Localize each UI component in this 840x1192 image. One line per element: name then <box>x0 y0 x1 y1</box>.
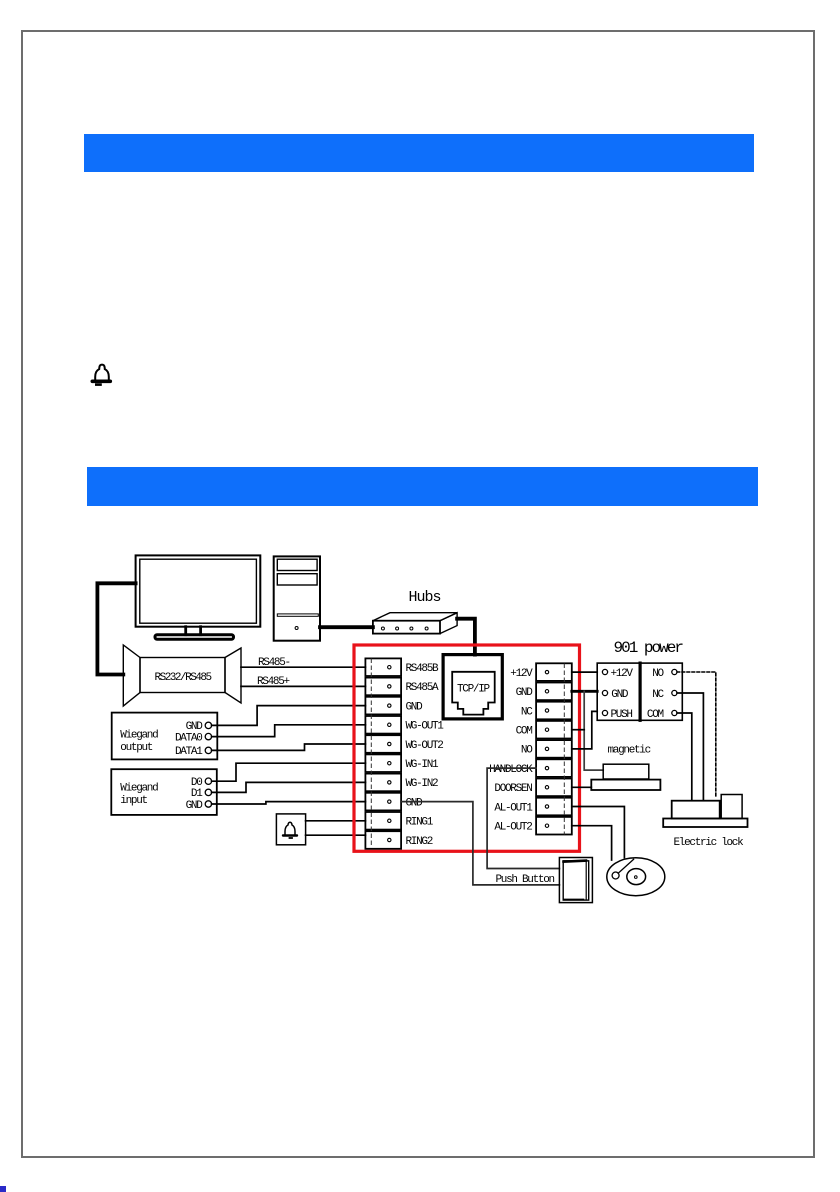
wire GND down to magnetic sensor <box>584 691 603 770</box>
doorbell button box <box>276 814 305 845</box>
svg-text:HANDLOCK: HANDLOCK <box>489 764 533 776</box>
svg-text:D0: D0 <box>191 777 202 789</box>
controller red outline box <box>354 645 580 851</box>
wire terminal GND to push button <box>401 802 559 885</box>
wire 901 NO dashed to lock <box>677 672 716 797</box>
wire D0 to terminal WG-IN1 <box>212 763 366 781</box>
wire D1 to terminal WG-IN2 <box>212 782 366 792</box>
svg-text:TCP/IP: TCP/IP <box>457 683 491 695</box>
svg-text:+12V: +12V <box>611 668 634 680</box>
svg-text:COM: COM <box>516 726 533 738</box>
svg-text:DATA1: DATA1 <box>175 746 203 758</box>
Wiegand input box <box>111 769 217 815</box>
wire 901 COM to lock <box>677 713 692 801</box>
magnetic sensor base <box>591 780 660 790</box>
svg-text:NC: NC <box>521 706 533 718</box>
svg-text:WG-IN2: WG-IN2 <box>406 778 439 790</box>
svg-text:AL-OUT2: AL-OUT2 <box>494 822 532 834</box>
svg-text:Electric lock: Electric lock <box>674 837 745 849</box>
svg-text:WG-IN1: WG-IN1 <box>406 759 440 771</box>
901 power box <box>597 663 682 720</box>
svg-text:input: input <box>120 795 147 807</box>
svg-text:NC: NC <box>652 689 664 701</box>
wire terminal HANDLOCK to push button <box>487 768 559 868</box>
left terminal pin labels <box>406 663 445 848</box>
svg-text:Wiegand: Wiegand <box>120 730 158 742</box>
siren <box>607 858 665 896</box>
wire RS485- to terminal RS485B <box>241 666 365 668</box>
wire terminal AL-OUT1 to siren <box>572 807 625 858</box>
wire terminal COM stub <box>572 729 584 731</box>
left terminal strip (10 cells) <box>365 658 401 848</box>
blue heading bar 2 <box>87 467 758 506</box>
wire terminal GND to 901 power (thick) <box>572 690 597 693</box>
svg-text:DATA0: DATA0 <box>175 732 202 744</box>
svg-text:RS485A: RS485A <box>406 682 440 694</box>
svg-text:RS485B: RS485B <box>406 663 440 675</box>
magnetic sensor body <box>603 764 649 779</box>
svg-text:D1: D1 <box>191 788 203 800</box>
svg-text:GND: GND <box>611 689 629 701</box>
svg-text:RING1: RING1 <box>406 817 434 829</box>
push button (door leaf) <box>559 858 592 903</box>
svg-text:WG-OUT1: WG-OUT1 <box>406 721 445 733</box>
svg-text:GND: GND <box>406 797 424 809</box>
wire Wiegand input GND to terminal GND <box>212 802 366 804</box>
monitor <box>136 555 261 639</box>
svg-text:GND: GND <box>186 800 204 812</box>
converter RS232/RS485 <box>123 645 241 706</box>
wire PC to hub (thick) <box>320 625 373 629</box>
wire monitor to converter (thick) <box>97 583 135 674</box>
svg-text:magnetic: magnetic <box>608 745 651 757</box>
svg-text:WG-OUT2: WG-OUT2 <box>406 740 444 752</box>
svg-text:Push Button: Push Button <box>496 874 555 886</box>
wire Wiegand output GND to terminal GND <box>212 706 366 726</box>
svg-text:Wiegand: Wiegand <box>120 783 158 795</box>
Wiegand output box <box>112 713 218 760</box>
svg-text:901 power: 901 power <box>614 639 684 657</box>
note bell icon <box>92 365 110 385</box>
wire doorbell to terminal RING2 <box>306 834 366 836</box>
wire DATA1 to terminal WG-OUT2 <box>212 744 366 750</box>
svg-text:GND: GND <box>406 701 424 713</box>
svg-text:RING2: RING2 <box>406 836 433 848</box>
wire doorbell to terminal RING1 <box>306 820 366 822</box>
hub box <box>373 613 457 634</box>
right terminal pin labels <box>489 668 533 834</box>
PC tower <box>274 556 320 640</box>
svg-text:AL-OUT1: AL-OUT1 <box>494 802 533 814</box>
TCP/IP port box <box>443 655 502 719</box>
wire terminal AL-OUT2 to siren <box>572 826 612 860</box>
svg-text:RS232/RS485: RS232/RS485 <box>155 672 212 684</box>
page corner footer fragment <box>0 1186 6 1192</box>
wire terminal NO to 901 PUSH <box>572 711 597 749</box>
svg-text:NO: NO <box>652 668 664 680</box>
svg-text:Hubs: Hubs <box>409 589 441 606</box>
svg-text:+12V: +12V <box>510 668 533 680</box>
right terminal strip (9 cells) <box>536 663 572 834</box>
svg-text:GND: GND <box>516 687 534 699</box>
wire RS485+ to terminal RS485A <box>241 685 365 687</box>
svg-text:DOORSEN: DOORSEN <box>494 783 532 795</box>
wire terminal +12V to 901 power <box>572 671 597 673</box>
svg-text:PUSH: PUSH <box>611 709 633 721</box>
wire terminal DOORSEN to magnetic sensor <box>572 786 592 788</box>
blue heading bar 1 <box>84 134 754 172</box>
svg-text:COM: COM <box>647 709 664 721</box>
wire DATA0 to terminal WG-OUT1 <box>212 725 366 737</box>
wire hub to TCP/IP port (thick) <box>457 619 475 655</box>
svg-text:NO: NO <box>521 745 533 757</box>
wire 901 NC to lock <box>677 693 703 801</box>
svg-text:output: output <box>120 742 153 754</box>
svg-text:GND: GND <box>186 721 204 733</box>
electric lock body <box>663 795 747 828</box>
